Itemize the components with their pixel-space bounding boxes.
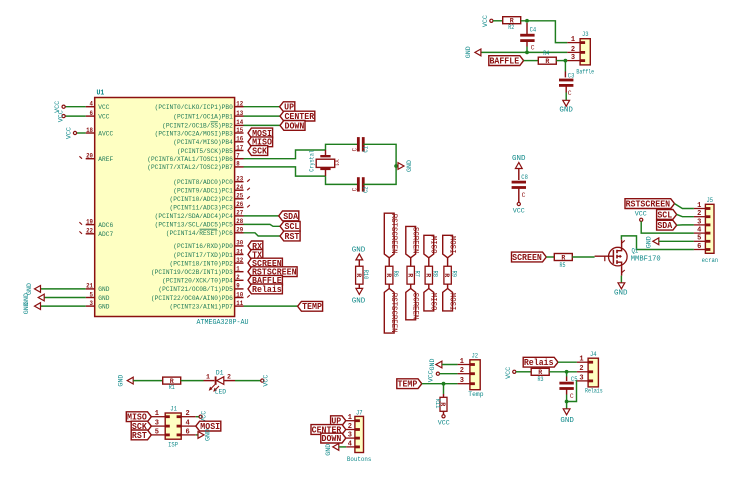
ground symbols at IC GND pins (23, 283, 86, 314)
node MISO flag (248, 137, 273, 148)
svg-text:1: 1 (579, 356, 583, 364)
svg-text:8: 8 (236, 161, 240, 168)
wire BAFFLE to R4 (524, 60, 539, 62)
node SCL flag at J5 (657, 210, 677, 221)
svg-text:16: 16 (236, 136, 243, 143)
node junction J3 pin3 (564, 59, 568, 63)
svg-text:GND: GND (352, 246, 366, 254)
svg-text:(PCINT17/TXD)PD1: (PCINT17/TXD)PD1 (173, 252, 233, 260)
wire PB0 to UP (244, 106, 280, 108)
wire Q1 source to ground (620, 276, 622, 283)
svg-text:30: 30 (236, 240, 243, 247)
resistor R6 with RSTSCREEN flags (384, 213, 399, 333)
svg-text:SDA: SDA (657, 221, 672, 231)
svg-text:14: 14 (236, 119, 243, 126)
node MOSI flag at J1 pin4 (196, 421, 221, 432)
node UP flag at J7 (331, 416, 346, 427)
wire crystal bottom rail (326, 170, 358, 185)
wire R11 to VCC (443, 411, 445, 414)
svg-text:U1: U1 (97, 90, 105, 98)
ground at J7 pin4 (325, 444, 346, 456)
svg-text:R10: R10 (362, 270, 369, 280)
node RST flag (280, 231, 300, 242)
node DOWN flag at J7 (321, 433, 346, 444)
svg-text:(PCINT3/OC2A/MOSI)PB3: (PCINT3/OC2A/MOSI)PB3 (155, 130, 233, 138)
node crystal gnd junction (394, 164, 400, 168)
svg-text:R5: R5 (560, 262, 566, 269)
wire SDA to J5 pin3 (677, 224, 694, 226)
svg-text:3: 3 (90, 300, 94, 307)
svg-text:ecran: ecran (702, 257, 719, 264)
svg-text:1: 1 (236, 266, 240, 273)
wire C1 right (363, 144, 396, 166)
svg-text:22: 22 (86, 228, 93, 235)
capacitor C4 (520, 23, 536, 53)
node RSTSCREEN flag at PD3 (248, 267, 297, 278)
svg-text:J1: J1 (170, 406, 177, 413)
node RX flag (248, 241, 263, 252)
svg-text:2: 2 (236, 274, 240, 281)
svg-text:VCC: VCC (58, 110, 65, 122)
svg-text:2: 2 (227, 373, 231, 380)
svg-text:3: 3 (571, 54, 575, 62)
svg-text:C: C (522, 192, 526, 199)
svg-text:24: 24 (236, 184, 243, 191)
resistor R2 (503, 17, 521, 32)
svg-text:(PCINT12/SDA/ADC4)PC4: (PCINT12/SDA/ADC4)PC4 (155, 213, 233, 221)
wire RSTSCREEN to J5 pin1 (675, 204, 694, 209)
svg-text:R8: R8 (432, 271, 439, 278)
svg-text:ISP: ISP (168, 441, 178, 448)
svg-text:VCC: VCC (438, 419, 450, 426)
svg-text:R7: R7 (413, 271, 420, 278)
capacitor C8 (512, 169, 528, 203)
wire PD7 to TEMP (244, 305, 298, 307)
svg-text:Relais: Relais (585, 388, 603, 395)
resistor R11 (434, 397, 447, 411)
svg-text:5: 5 (697, 235, 701, 243)
svg-text:AVCC: AVCC (98, 130, 113, 138)
wire C5 to gnd (566, 402, 568, 409)
ground at crystal (398, 160, 413, 172)
node BAFFLE flag at PD4 (248, 275, 282, 286)
svg-text:(PCINT0/CLKO/ICP1)PB0: (PCINT0/CLKO/ICP1)PB0 (155, 104, 233, 112)
wire J4 pin3 to gnd (567, 381, 577, 402)
svg-text:(PCINT14/RESET)PC6: (PCINT14/RESET)PC6 (166, 230, 233, 238)
power VCC at D1 (261, 375, 270, 387)
svg-text:2: 2 (460, 367, 464, 375)
svg-text:26: 26 (236, 201, 243, 208)
svg-text:R3: R3 (538, 376, 544, 383)
connector J1 ISP (151, 406, 196, 449)
svg-text:10: 10 (236, 291, 243, 298)
svg-text:(PCINT7/XTAL2/TOSC2)PB7: (PCINT7/XTAL2/TOSC2)PB7 (147, 164, 233, 172)
power VCC at J2 pin2 (428, 370, 458, 382)
svg-text:2: 2 (571, 46, 575, 54)
wire PB6 to crystal (244, 150, 326, 159)
svg-text:BAFFLE: BAFFLE (489, 57, 519, 67)
svg-text:C: C (351, 148, 358, 152)
wire PB7 to crystal (244, 167, 326, 176)
svg-text:1: 1 (155, 410, 159, 418)
svg-text:4: 4 (697, 227, 701, 235)
svg-text:MMBF170: MMBF170 (631, 256, 661, 264)
node SDA flag at J5 (657, 220, 677, 231)
svg-text:15: 15 (236, 127, 243, 134)
ground at J2 pin1 (429, 358, 458, 370)
svg-text:GND: GND (98, 295, 109, 303)
svg-text:4: 4 (348, 440, 352, 448)
svg-text:(PCINT19/OC2B/INT1)PD3: (PCINT19/OC2B/INT1)PD3 (151, 269, 233, 277)
svg-text:3: 3 (579, 374, 583, 382)
svg-text:GND: GND (614, 290, 628, 298)
ground above C8 (512, 155, 526, 168)
ground below C5 (560, 409, 574, 425)
ground at J5 pin5 (646, 236, 659, 248)
node SCL flag (280, 221, 300, 232)
wire R5 to Q1 gate (572, 256, 594, 258)
svg-text:1: 1 (460, 358, 464, 366)
resistor R3 (531, 368, 549, 383)
svg-text:LED: LED (215, 389, 226, 396)
resistor R1 (163, 377, 181, 391)
wire Relais to J4 pin1 (558, 361, 577, 363)
node junction C5-gnd (565, 400, 569, 404)
svg-text:GND: GND (646, 236, 653, 248)
svg-text:18: 18 (86, 127, 93, 134)
svg-text:Q1: Q1 (632, 248, 639, 255)
svg-text:VCC: VCC (482, 15, 489, 27)
svg-text:6: 6 (697, 243, 701, 251)
svg-text:12: 12 (236, 101, 243, 108)
power VCC below R11 (438, 415, 450, 427)
resistor R5 (554, 254, 572, 269)
ground at J1 pin6 (196, 429, 212, 441)
resistor R10 (355, 260, 369, 289)
svg-text:C: C (531, 44, 535, 51)
svg-text:VCC: VCC (98, 113, 109, 121)
node MOSI flag (248, 128, 273, 139)
svg-text:11: 11 (236, 300, 243, 307)
svg-text:Boutons: Boutons (347, 456, 372, 463)
wire PB1 to CENTER (244, 115, 281, 117)
node Relais flag at J4 (523, 357, 558, 368)
svg-text:VCC: VCC (428, 370, 435, 382)
wire PB2 to DOWN (244, 124, 281, 126)
svg-text:C3: C3 (568, 72, 575, 79)
svg-text:2: 2 (579, 365, 583, 373)
LED D1 (204, 370, 236, 396)
svg-text:RST: RST (285, 232, 300, 242)
power VCC AVCC pin 18 (65, 127, 85, 139)
svg-text:C8: C8 (521, 174, 528, 181)
node CENTER flag (280, 111, 315, 122)
capacitor C1 (351, 137, 369, 153)
wire PC6 to RST (244, 233, 281, 236)
node UP flag (280, 102, 295, 113)
svg-text:1: 1 (206, 373, 210, 380)
node Relais flag at PD5 (248, 284, 282, 295)
node SDA flag (279, 211, 299, 222)
unconnected pin end hooks (79, 156, 249, 297)
op-amp U1 ATMEGA328P-AU body (95, 90, 249, 328)
svg-text:C4: C4 (530, 26, 537, 33)
svg-text:(PCINT18/INT0)PD2: (PCINT18/INT0)PD2 (170, 260, 233, 268)
wire C2 right (363, 166, 396, 184)
svg-text:(PCINT21/OC0B/T1)PD5: (PCINT21/OC0B/T1)PD5 (158, 286, 232, 294)
svg-text:MISO: MISO (429, 236, 439, 254)
svg-text:GND: GND (118, 375, 125, 387)
svg-text:(PCINT22/OC0A/AIN0)PD6: (PCINT22/OC0A/AIN0)PD6 (151, 295, 233, 303)
svg-text:2: 2 (348, 423, 352, 431)
node DOWN flag (280, 121, 305, 132)
svg-text:(PCINT13/SCL/ADC5)PC5: (PCINT13/SCL/ADC5)PC5 (155, 222, 233, 230)
node BAFFLE flag at J3 (489, 56, 524, 67)
svg-text:32: 32 (236, 257, 243, 264)
svg-text:(PCINT20/XCK/T0)PD4: (PCINT20/XCK/T0)PD4 (162, 278, 233, 286)
connector J5 ecran (694, 197, 718, 264)
node junction TEMP-R11 (442, 382, 446, 386)
node SCREEN flag at R5 (512, 252, 547, 263)
svg-text:J3: J3 (582, 31, 589, 38)
svg-text:(PCINT6/XTAL1/TOSC1)PB6: (PCINT6/XTAL1/TOSC1)PB6 (147, 156, 233, 164)
wire GND to R1 (133, 380, 163, 382)
svg-text:GND: GND (559, 107, 573, 115)
svg-text:Relais: Relais (524, 358, 554, 368)
node SCREEN flag at PD2 (248, 258, 282, 269)
wire SCL to J5 pin2 (677, 214, 694, 216)
node RST flag at J1 (131, 430, 151, 441)
capacitor C5 (559, 372, 577, 402)
node SCK flag at J1 (131, 421, 151, 432)
node TX flag (248, 250, 263, 261)
wire crystal top rail (326, 144, 358, 155)
svg-text:Baffle: Baffle (576, 68, 594, 75)
svg-text:GND: GND (23, 302, 30, 314)
wire VCC to R2 (493, 20, 503, 22)
wire GND rail to J3 pin2 (480, 51, 567, 53)
resistor R4 (538, 50, 556, 65)
ground below C3 (559, 100, 573, 114)
capacitor C3 (559, 61, 575, 101)
svg-text:3: 3 (348, 432, 352, 440)
wire R1 to D1 (181, 380, 204, 382)
resistor R8 with MISO flags (424, 235, 439, 311)
svg-text:C: C (351, 188, 358, 192)
svg-text:(PCINT23/AIN1)PD7: (PCINT23/AIN1)PD7 (170, 303, 233, 311)
svg-text:(PCINT4/MISO)PB4: (PCINT4/MISO)PB4 (173, 139, 233, 147)
svg-text:J7: J7 (356, 410, 363, 417)
svg-text:19: 19 (86, 218, 93, 225)
node CENTER flag at J7 (311, 425, 346, 436)
svg-text:GND: GND (465, 46, 472, 58)
wire GND to J5 pin5 (659, 240, 694, 242)
node MISO flag at J1 (126, 412, 151, 423)
svg-text:R11: R11 (434, 399, 441, 409)
svg-text:R: R (385, 273, 392, 277)
wire PC4 to SDA (244, 215, 279, 217)
svg-text:DOWN: DOWN (322, 434, 342, 444)
svg-text:21: 21 (86, 283, 93, 290)
wire R3 to J4 pin2 (549, 371, 577, 373)
svg-text:TEMP: TEMP (398, 380, 418, 390)
svg-text:2: 2 (185, 410, 189, 418)
svg-text:RSTSCREEN: RSTSCREEN (626, 200, 671, 210)
svg-text:SCREEN: SCREEN (411, 293, 421, 320)
svg-text:R: R (406, 273, 413, 277)
svg-text:Relais: Relais (252, 285, 282, 295)
node SCK flag (248, 146, 268, 157)
svg-text:VCC: VCC (65, 127, 72, 139)
wire R2 to J3 pin1 (521, 21, 568, 43)
svg-text:MOSI: MOSI (448, 293, 458, 311)
svg-text:R6: R6 (392, 271, 399, 278)
svg-text:J5: J5 (707, 197, 714, 204)
svg-text:VCC: VCC (263, 375, 270, 387)
ground left of C4 (465, 46, 481, 58)
svg-text:GND: GND (406, 160, 413, 172)
wire VCC to R3 (516, 371, 531, 373)
wire PC5 to SCL (244, 224, 281, 226)
svg-text:17: 17 (236, 144, 243, 151)
ground at R1 (118, 375, 134, 387)
svg-text:VCC: VCC (635, 211, 647, 218)
node junction C4-gnd rail (525, 51, 529, 55)
svg-text:SCK: SCK (252, 146, 267, 156)
svg-text:3: 3 (460, 377, 464, 385)
svg-text:J2: J2 (472, 352, 479, 359)
svg-text:R: R (443, 273, 450, 277)
svg-text:1: 1 (571, 36, 575, 44)
svg-text:MISO: MISO (429, 293, 439, 311)
svg-text:Temp: Temp (468, 391, 483, 398)
ground above R10 (352, 246, 366, 260)
svg-text:1: 1 (348, 414, 352, 422)
svg-text:R: R (561, 254, 565, 261)
connector J4 Relais (577, 351, 603, 395)
svg-text:28: 28 (236, 218, 243, 225)
svg-text:GND: GND (352, 297, 366, 305)
wire VCC to J5 pin4 (641, 221, 694, 233)
svg-text:C: C (570, 393, 574, 400)
svg-text:(PCINT9/ADC1)PC1: (PCINT9/ADC1)PC1 (173, 188, 233, 196)
svg-text:R2: R2 (508, 24, 514, 31)
svg-text:ADC7: ADC7 (98, 231, 113, 239)
svg-text:R4: R4 (543, 50, 549, 57)
wire Q1 drain to J5 pin6 (621, 236, 694, 250)
svg-text:ATMEGA328P-AU: ATMEGA328P-AU (197, 319, 249, 327)
svg-text:(PCINT16/RXD)PD0: (PCINT16/RXD)PD0 (173, 243, 233, 251)
svg-text:SDA: SDA (283, 212, 298, 222)
IC left pin stubs, numbers and names (86, 101, 113, 312)
svg-text:MOSI: MOSI (448, 236, 458, 254)
svg-text:R: R (424, 273, 431, 277)
svg-text:6: 6 (185, 428, 189, 436)
svg-text:D1: D1 (216, 370, 224, 377)
wire D1 to VCC (235, 380, 261, 382)
power VCC at R2 (482, 15, 493, 27)
svg-text:C1: C1 (363, 146, 370, 153)
svg-text:Y1: Y1 (333, 159, 340, 166)
svg-text:3: 3 (697, 218, 701, 226)
svg-text:SCREEN: SCREEN (512, 253, 542, 263)
svg-text:J4: J4 (590, 351, 597, 358)
svg-text:C2: C2 (363, 186, 370, 193)
capacitor C2 (351, 177, 369, 193)
svg-text:20: 20 (86, 153, 93, 160)
svg-text:SCL: SCL (657, 210, 672, 220)
node TEMP flag at PD7 (298, 301, 323, 312)
svg-text:GND: GND (429, 358, 436, 370)
svg-text:Crystal: Crystal (309, 150, 316, 172)
svg-text:7: 7 (236, 153, 240, 160)
svg-text:TEMP: TEMP (302, 302, 322, 312)
node junction R2-C4 (525, 19, 529, 23)
svg-text:VCC: VCC (505, 367, 512, 379)
node junction R3-C5 (565, 370, 569, 374)
node RSTSCREEN flag at J5 (625, 199, 675, 210)
svg-text:31: 31 (236, 248, 243, 255)
node TEMP flag at J2 (397, 379, 422, 390)
svg-text:RSTSCREEN: RSTSCREEN (389, 293, 399, 333)
power VCC at R3 (505, 367, 516, 379)
power VCC at J5 (635, 211, 647, 222)
svg-text:5: 5 (155, 428, 159, 436)
IC right pin stubs, numbers and names (147, 101, 243, 312)
ground below R10 (352, 288, 366, 305)
connector J7 Boutons (346, 410, 371, 463)
wire R4 to J3 pin3 (556, 60, 567, 62)
resistor R7 with SCREEN flags (406, 226, 421, 319)
svg-text:AREF: AREF (98, 156, 113, 164)
power VCC at J1 pin2 (196, 411, 208, 423)
svg-text:RSTSCREEN: RSTSCREEN (389, 214, 399, 254)
svg-text:(PCINT10/ADC2)PC2: (PCINT10/ADC2)PC2 (170, 196, 233, 204)
crystal Y1 (309, 150, 340, 172)
wire SCREEN to R5 (546, 256, 554, 258)
svg-text:GND: GND (325, 444, 332, 456)
svg-text:3: 3 (155, 420, 159, 428)
svg-text:(PCINT8/ADC0)PC0: (PCINT8/ADC0)PC0 (173, 179, 233, 187)
connector J2 Temp (458, 352, 484, 398)
svg-text:ADC6: ADC6 (98, 222, 113, 230)
svg-text:R1: R1 (169, 384, 175, 391)
connector J3 Baffle (567, 31, 594, 75)
svg-text:13: 13 (236, 110, 243, 117)
power VCC pin 4 (54, 101, 85, 113)
svg-text:VCC: VCC (98, 104, 109, 112)
svg-text:6: 6 (90, 110, 94, 117)
ground below Q1 (614, 283, 628, 298)
svg-text:SCREEN: SCREEN (411, 227, 421, 254)
svg-text:4: 4 (185, 420, 189, 428)
power VCC below C8 (513, 202, 525, 214)
svg-text:1: 1 (697, 202, 701, 210)
svg-text:C: C (568, 90, 572, 97)
resistor R9 with MOSI flags (443, 235, 458, 311)
svg-text:5: 5 (90, 291, 94, 298)
svg-text:GND: GND (204, 429, 211, 441)
svg-text:23: 23 (236, 176, 243, 183)
svg-text:GND: GND (98, 303, 109, 311)
svg-text:GND: GND (560, 417, 574, 425)
svg-text:RST: RST (132, 431, 147, 441)
svg-text:R: R (545, 58, 549, 65)
svg-text:(PCINT11/ADC3)PC3: (PCINT11/ADC3)PC3 (170, 205, 233, 213)
svg-text:(PCINT1/OC1A)PB1: (PCINT1/OC1A)PB1 (173, 113, 233, 121)
transistor Q1 MMBF170 (595, 240, 661, 276)
svg-text:R9: R9 (450, 271, 457, 278)
